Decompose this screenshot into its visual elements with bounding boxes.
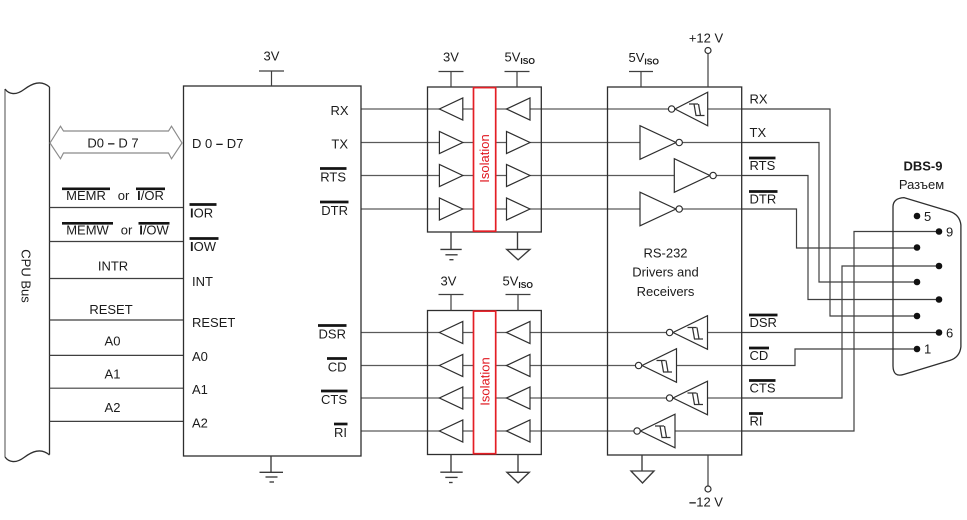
iso buffer RI right (points left) [507, 420, 531, 442]
wire DSR row inside RS-232 [608, 332, 742, 334]
svg-text:CD: CD [328, 360, 347, 375]
RS-232 driver RTS [674, 159, 716, 193]
svg-text:RTS: RTS [320, 170, 346, 185]
wire RI row UART to RS-232 [361, 430, 608, 432]
RS-232 receiver RX [668, 92, 707, 126]
iso buffer CTS right (points left) [507, 387, 531, 409]
DB9 pin 8 [936, 263, 943, 270]
iso1 3V supply [439, 50, 464, 88]
wire RTS row UART to RS-232 [361, 175, 608, 177]
svg-text:IOR: IOR [190, 205, 213, 220]
wire DTR row inside RS-232 [608, 208, 742, 210]
iso buffer DTR right (points right) [507, 198, 531, 220]
svg-text:Receivers: Receivers [637, 284, 695, 299]
isolation block 2 (bottom) [428, 311, 542, 455]
svg-text:9: 9 [946, 224, 953, 239]
DB9 pin 6 [936, 329, 943, 336]
svg-text:RESET: RESET [89, 302, 132, 317]
svg-text:6: 6 [946, 325, 953, 340]
iso2 3V supply [439, 274, 464, 311]
DB9 pin 5 [914, 213, 921, 220]
CPU bus body [5, 83, 50, 462]
wire RI row inside RS-232 [608, 430, 742, 432]
svg-text:3V: 3V [441, 274, 457, 289]
svg-text:CD: CD [750, 348, 769, 363]
RS-232 block U3 [608, 87, 742, 455]
svg-text:RS-232: RS-232 [643, 246, 687, 261]
RS-232 block label [632, 246, 698, 300]
wire RTS row inside RS-232 [608, 175, 742, 177]
svg-text:Isolation: Isolation [478, 357, 493, 405]
svg-text:TX: TX [331, 137, 348, 152]
wire RI route to DB9 pin 9 [742, 232, 939, 432]
svg-text:D 0 – D7: D 0 – D7 [192, 136, 243, 151]
svg-text:MEMW: MEMW [66, 223, 109, 238]
svg-text:TX: TX [750, 125, 767, 140]
wire CD route to DB9 pin 1 [742, 349, 917, 366]
wire A0 [50, 354, 184, 356]
wire RESET [50, 319, 184, 321]
wire CTS route to DB9 pin 8 [742, 266, 939, 398]
RS-232 receiver RI [634, 414, 675, 448]
svg-text:MEMR: MEMR [66, 188, 106, 203]
iso buffer RTS left (points right) [439, 165, 462, 187]
svg-text:I/OW: I/OW [139, 223, 169, 238]
wire DTR route to DB9 pin 4 [742, 209, 917, 248]
isolation block 1 (top) [428, 87, 542, 232]
wire TX row inside RS-232 [608, 142, 742, 144]
svg-text:Drivers and: Drivers and [632, 265, 698, 280]
wire DTR row UART to RS-232 [361, 208, 608, 210]
svg-text:CPU Bus: CPU Bus [19, 249, 34, 303]
svg-text:DBS-9: DBS-9 [903, 159, 942, 174]
wire CD row inside RS-232 [608, 365, 742, 367]
RS-232 5V_ISO supply [629, 50, 660, 87]
node MEMW or I/OW label [62, 223, 170, 238]
-12V supply terminal [689, 455, 723, 510]
wire A1 [50, 387, 184, 389]
iso1 5V_ISO supply [505, 50, 536, 88]
wire RTS route to DB9 pin 7 [742, 176, 939, 300]
svg-text:RX: RX [750, 92, 768, 107]
svg-text:+12 V: +12 V [689, 31, 724, 46]
iso buffer DTR left (points right) [439, 198, 462, 220]
DB9 connector outline [893, 198, 961, 376]
DB9 pin 9 [936, 228, 943, 235]
iso buffer DSR right (points left) [507, 322, 531, 344]
DB9 pin 4 [914, 244, 921, 251]
iso1 ground left [440, 232, 461, 260]
svg-text:or: or [121, 223, 133, 238]
iso buffer CD left (points left) [439, 355, 462, 377]
isolation barrier 2 [474, 311, 496, 454]
wire CTS row UART to RS-232 [361, 397, 608, 399]
iso buffer RX right (points left) [507, 98, 531, 120]
svg-text:Разъем: Разъем [899, 177, 944, 192]
RS-232 driver TX [640, 126, 682, 160]
svg-text:DSR: DSR [319, 327, 346, 342]
svg-text:CTS: CTS [750, 381, 776, 396]
wire RX row UART to RS-232 [361, 108, 608, 110]
svg-text:1: 1 [924, 342, 931, 357]
svg-text:–12 V: –12 V [689, 495, 723, 510]
svg-text:A1: A1 [105, 367, 121, 382]
svg-text:or: or [118, 188, 130, 203]
wire CTS row inside RS-232 [608, 397, 742, 399]
svg-text:RX: RX [330, 103, 348, 118]
node MEMR or I/OR label [62, 188, 165, 203]
wire MEMR/IOR [50, 207, 184, 209]
svg-text:INTR: INTR [98, 259, 128, 274]
svg-text:3V: 3V [264, 49, 280, 64]
UART ground [260, 456, 284, 482]
svg-text:A2: A2 [192, 415, 208, 430]
svg-text:3V: 3V [443, 50, 459, 65]
wire RX row inside RS-232 [608, 108, 742, 110]
svg-text:RESET: RESET [192, 315, 235, 330]
UART 3V supply [259, 49, 284, 87]
RS-232 receiver CTS [666, 381, 707, 415]
RS-232 receiver DSR [666, 316, 707, 350]
svg-text:A2: A2 [105, 400, 121, 415]
RS-232 receiver CD [635, 349, 676, 383]
svg-text:5: 5 [924, 209, 931, 224]
iso buffer CD right (points left) [507, 355, 531, 377]
DB9 pin 2 [914, 313, 921, 320]
wire TX route to DB9 pin 3 [742, 143, 917, 283]
svg-text:I/OR: I/OR [137, 188, 164, 203]
isolation barrier 1 [474, 88, 496, 232]
wire A2 [50, 420, 184, 422]
svg-text:INT: INT [192, 274, 213, 289]
wire TX row UART to RS-232 [361, 142, 608, 144]
DB9 pin 7 [936, 296, 943, 303]
RS-232 ground (triangle) [631, 455, 654, 483]
iso buffer RTS right (points right) [507, 165, 531, 187]
wire MEMW/IOW [50, 241, 184, 243]
svg-text:IOW: IOW [190, 239, 217, 254]
svg-text:Isolation: Isolation [477, 134, 492, 182]
iso buffer TX left (points right) [439, 132, 462, 154]
svg-text:RTS: RTS [750, 158, 776, 173]
wire DSR route to DB9 pin 6 [742, 332, 939, 334]
iso buffer TX right (points right) [507, 132, 531, 154]
svg-text:RI: RI [750, 414, 763, 429]
svg-text:A1: A1 [192, 382, 208, 397]
DB9 pin 3 [914, 279, 921, 286]
svg-text:DTR: DTR [321, 203, 348, 218]
svg-text:D0 – D 7: D0 – D 7 [87, 136, 138, 151]
svg-text:A0: A0 [105, 334, 121, 349]
wire RX route to DB9 pin 2 [742, 109, 917, 316]
svg-text:A0: A0 [192, 349, 208, 364]
iso buffer DSR left (points left) [439, 322, 462, 344]
iso2 ground right (triangle) [507, 455, 529, 483]
iso buffer RX left (points left) [439, 98, 462, 120]
RS-232 driver DTR [640, 192, 682, 226]
iso2 ground left [440, 455, 462, 483]
svg-text:CTS: CTS [321, 392, 347, 407]
UART block U1 [184, 86, 362, 456]
svg-text:DSR: DSR [750, 315, 777, 330]
+12V supply terminal [689, 31, 724, 88]
DB9 pin 1 [914, 346, 921, 353]
iso1 ground right (triangle) [507, 232, 530, 260]
iso buffer CTS left (points left) [439, 387, 462, 409]
iso2 5V_ISO supply [503, 274, 534, 311]
D0-D7 bus double arrow [50, 126, 182, 159]
wire DSR row UART to RS-232 [361, 332, 608, 334]
iso buffer RI left (points left) [439, 420, 462, 442]
svg-text:RI: RI [334, 425, 347, 440]
wire CD row UART to RS-232 [361, 365, 608, 367]
svg-text:DTR: DTR [750, 192, 777, 207]
wire INTR [50, 278, 184, 280]
